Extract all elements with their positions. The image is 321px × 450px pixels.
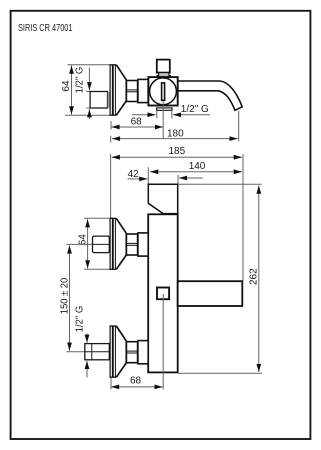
spout (side view): [178, 281, 243, 306]
spout (top view): [178, 81, 242, 110]
centerline down from square: [162, 294, 164, 389]
svg-text:180: 180: [167, 129, 184, 140]
lever base thick line: [163, 213, 178, 215]
svg-text:140: 140: [189, 161, 206, 172]
neck nubs: [157, 75, 171, 77]
dim 185: [112, 156, 242, 158]
svg-text:262: 262: [248, 268, 259, 285]
inlet edge stubs (top view): [86, 92, 90, 109]
body (side view): [148, 214, 178, 372]
lower connector block (side view): [138, 341, 148, 364]
spout outlet fitting below body: [157, 108, 172, 110]
dim 64: extension lines: [65, 65, 110, 115]
cartridge circle: [150, 78, 177, 105]
svg-text:185: 185: [169, 146, 186, 157]
ext line right (spout tip): [238, 111, 240, 141]
upper nut (side view): [93, 236, 110, 253]
dim 42: right outside arrow at body right edge: [179, 177, 203, 179]
svg-text:64: 64: [77, 234, 88, 246]
svg-text:1/2" G: 1/2" G: [74, 306, 85, 333]
body (top view): [148, 77, 177, 105]
64 ext lines: [84, 218, 110, 269]
svg-text:68: 68: [131, 117, 143, 128]
lower flange plate (side view): [110, 326, 117, 377]
upper adapter ring (side view): [126, 234, 137, 255]
ext line wall (side view, above): [110, 154, 112, 218]
150 tick upper: [66, 243, 92, 245]
body top extension (for 262): [178, 183, 262, 185]
lower adapter ring (side view): [126, 342, 137, 363]
adapter ring (top view): [126, 81, 137, 102]
dim 262: [258, 186, 260, 373]
ext line spout-right (side view, above): [242, 154, 244, 281]
wall flange plate (top view): [110, 65, 117, 115]
dim 68 (side view bottom): [111, 386, 163, 388]
connector block (top view): [138, 79, 148, 102]
thread shade (top view): [108, 92, 110, 108]
outlet callout arrows: [132, 114, 156, 116]
svg-text:64: 64: [61, 80, 72, 92]
centerline of body (top view): [162, 101, 164, 139]
inlet nut (top view): [90, 92, 107, 109]
upper connector block (side view): [138, 233, 148, 256]
lower nut with stub: [85, 344, 110, 360]
body bottom extension (for 262): [178, 372, 262, 374]
dim 180: [112, 138, 238, 140]
svg-text:1/2" G: 1/2" G: [74, 67, 85, 94]
dim 64: dimension line with arrows: [71, 66, 73, 115]
svg-text:1/2" G: 1/2" G: [181, 104, 209, 115]
lower flange cone (side view): [116, 326, 126, 377]
svg-text:SIRIS CR 47001: SIRIS CR 47001: [18, 23, 73, 34]
lever (side view): [148, 184, 177, 213]
dim 64 (side view): [87, 219, 89, 268]
diverter square (side view): [157, 288, 169, 300]
svg-text:150 ± 20: 150 ± 20: [60, 277, 71, 314]
ext line body-right (above body top): [177, 175, 179, 184]
upper flange cone (side view): [116, 218, 126, 269]
knob neck (top view): [159, 73, 169, 77]
leader arrows for inlet thread (top view): [88, 68, 90, 91]
upper flange plate (side view): [110, 218, 117, 269]
dim 140: [150, 171, 242, 173]
dim 68 (top view): [111, 126, 163, 128]
lower inlet leader arrows: [86, 334, 88, 343]
svg-text:68: 68: [130, 376, 142, 387]
150 tick lower: [66, 351, 85, 353]
flange cone (top view): [116, 65, 126, 115]
handle slot: [162, 83, 165, 100]
dim 150 ± 20: [69, 245, 71, 350]
ext line left (wall, top view dims): [110, 121, 112, 130]
svg-text:42: 42: [128, 169, 140, 180]
outlet extension lines: [157, 110, 172, 118]
diverter knob (top view): [157, 60, 170, 73]
ext line wall bottom: [110, 378, 112, 390]
ext line body-left (side view, above): [147, 167, 149, 184]
